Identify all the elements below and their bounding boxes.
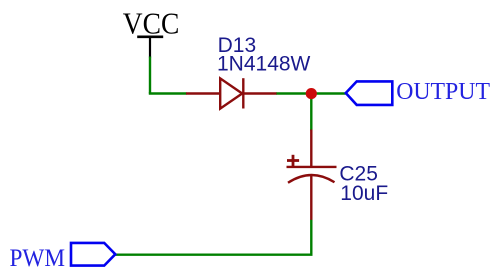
diode D13 — [186, 78, 277, 108]
wire junction down to capacitor — [310, 94, 312, 131]
wire capacitor bottom down — [310, 220, 312, 255]
junction node — [306, 88, 317, 99]
wire VCC vertical — [149, 57, 151, 94]
port PWM — [71, 243, 115, 266]
svg-text:PWM: PWM — [10, 245, 66, 272]
svg-text:10uF: 10uF — [340, 182, 388, 205]
svg-text:VCC: VCC — [123, 5, 180, 40]
capacitor plus polarity mark — [287, 155, 299, 167]
power symbol VCC — [123, 5, 180, 57]
wire top horizontal left — [149, 92, 187, 94]
port OUTPUT — [346, 81, 393, 105]
wire bottom horizontal — [115, 253, 312, 255]
wire diode cathode to junction — [276, 92, 311, 94]
wire junction to OUTPUT port — [311, 92, 346, 94]
svg-text:OUTPUT: OUTPUT — [396, 78, 490, 105]
svg-text:1N4148W: 1N4148W — [217, 52, 311, 75]
capacitor C25 — [287, 130, 337, 220]
